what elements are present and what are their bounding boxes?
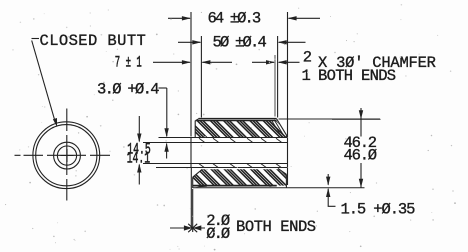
rubber OD circle inner (double ring) — [36, 125, 97, 186]
arrow 3.0 up — [164, 143, 168, 152]
inner tube OD circle — [54, 142, 81, 169]
arrow 64 left — [182, 16, 191, 20]
tube OD top line — [159, 137, 288, 139]
dim 64 line left — [168, 17, 190, 19]
inner tube bore circle — [57, 146, 76, 165]
arrow 2.0 left-pointing — [193, 225, 202, 230]
dim 3.0 vertical upper — [166, 88, 168, 136]
bottom band lip step left wedge — [196, 185, 207, 188]
rubber full OD bottom line / extension — [193, 187, 365, 189]
top band left corner chamfer — [196, 118, 200, 120]
arrow chamfer right — [278, 60, 287, 64]
arrow 14.5 down — [137, 134, 141, 143]
bottom band bottom edge middle (reduced OD) — [193, 185, 277, 187]
tube right end face — [287, 138, 289, 168]
extension line rubber bottom-left end face down — [192, 189, 194, 232]
dim 3.0 vertical lower tail — [166, 144, 168, 159]
arrow 46 top (down at ext) — [359, 110, 363, 119]
vertical centerline — [66, 109, 68, 201]
dim 7 line left — [153, 61, 190, 63]
tube bore top line — [143, 142, 288, 144]
CLOSED BUTT leader tick — [32, 38, 40, 40]
extension line rubber right end up — [277, 36, 279, 118]
bottom rubber band hatch stripes — [183, 167, 301, 186]
dim 46 vertical upper — [360, 108, 362, 137]
svg-text:5Ø ±Ø.4: 5Ø ±Ø.4 — [213, 34, 267, 52]
svg-text:2: 2 — [303, 49, 312, 67]
tube bore bottom line — [143, 163, 288, 165]
tube top wall hatch ticks — [199, 138, 282, 168]
svg-text:7 ± 1: 7 ± 1 — [115, 53, 142, 71]
tube bottom wall hatch ticks — [199, 164, 282, 168]
chamfer dim line left tail — [252, 61, 274, 63]
bottom band right end face — [285, 174, 287, 188]
svg-text:46.Ø: 46.Ø — [344, 147, 377, 165]
extension line left face up — [190, 12, 192, 137]
svg-text:14.1: 14.1 — [127, 149, 151, 167]
svg-text:CLOSED BUTT: CLOSED BUTT — [40, 32, 147, 50]
dim 14.5 vertical upper — [138, 116, 140, 142]
arrow 3.0 down — [164, 128, 168, 137]
dim 1.5 vertical lower tail + elbow — [328, 189, 335, 207]
dim 2.0 horizontal line — [170, 227, 205, 229]
dim 46 top extension — [332, 118, 381, 120]
dim 14.5 vertical lower tail — [138, 165, 140, 185]
center cross — [61, 149, 74, 162]
svg-text:64 ±Ø.3: 64 ±Ø.3 — [208, 10, 261, 28]
extension line right face up — [287, 12, 289, 137]
arrow 50 left — [192, 40, 201, 44]
bottom band lip step right wedge — [270, 185, 278, 187]
arrow 50 right — [278, 40, 287, 44]
svg-text:BOTH ENDS: BOTH ENDS — [236, 218, 316, 236]
tube left end face — [190, 138, 192, 168]
svg-text:3.Ø +Ø.4: 3.Ø +Ø.4 — [97, 81, 159, 99]
arrowheads — [137, 16, 363, 232]
dim 1.5 vertical upper tail — [327, 174, 329, 185]
rubber full OD top extension line — [279, 118, 381, 120]
arrow chamfer left — [266, 60, 275, 64]
dim 50 line left — [178, 41, 200, 43]
arrow 64 right — [288, 16, 297, 20]
extension line right face down — [287, 168, 289, 185]
svg-text:BOTH ENDS: BOTH ENDS — [318, 67, 396, 85]
arrow 1.5 up — [326, 188, 330, 197]
top rubber band hatch stripes — [183, 120, 300, 139]
svg-text:Ø.Ø: Ø.Ø — [206, 225, 230, 243]
svg-text:1: 1 — [302, 67, 311, 85]
star cross strokes at 2.0 dim — [188, 224, 197, 232]
rubber OD circle outer — [33, 122, 100, 189]
CLOSED BUTT leader arrowhead — [53, 118, 57, 127]
dim 3.0 elbow from text — [159, 87, 167, 89]
arrow 2.0 right-pointing — [184, 225, 193, 230]
CLOSED BUTT leader line — [32, 41, 55, 121]
extension line chamfer start up (faint) — [274, 55, 276, 117]
bottom band left end face — [192, 177, 194, 188]
dim 46 vertical lower — [360, 163, 362, 188]
chamfer dim line right tail — [279, 61, 300, 63]
arrow 1.5 down — [326, 177, 330, 186]
arrow 7 left — [182, 60, 191, 64]
tube OD bottom line — [156, 167, 288, 169]
extension line rubber left end up — [200, 36, 202, 118]
top band left end face — [194, 121, 196, 138]
svg-text:1.5 +Ø.35: 1.5 +Ø.35 — [341, 201, 416, 219]
arrow 7 right — [201, 60, 210, 64]
extension line left face down (for 2.0 dim) — [190, 168, 192, 228]
dim 64 line right — [289, 17, 321, 19]
top band right 30 deg chamfer face (multi-line) — [277, 119, 287, 138]
arrow 46 bottom (down at ext) — [359, 179, 363, 188]
top rubber band top edge lower line — [196, 120, 277, 122]
bottom band right chamfer slope — [278, 168, 286, 174]
bottom rubber band left chamfer slope — [193, 169, 203, 177]
top rubber band top edge upper line — [199, 118, 277, 120]
arrow 14.5 up — [137, 164, 141, 173]
horizontal centerline — [15, 154, 111, 156]
dim 50 line right — [279, 41, 306, 43]
dim 7 line right tail — [202, 61, 232, 63]
